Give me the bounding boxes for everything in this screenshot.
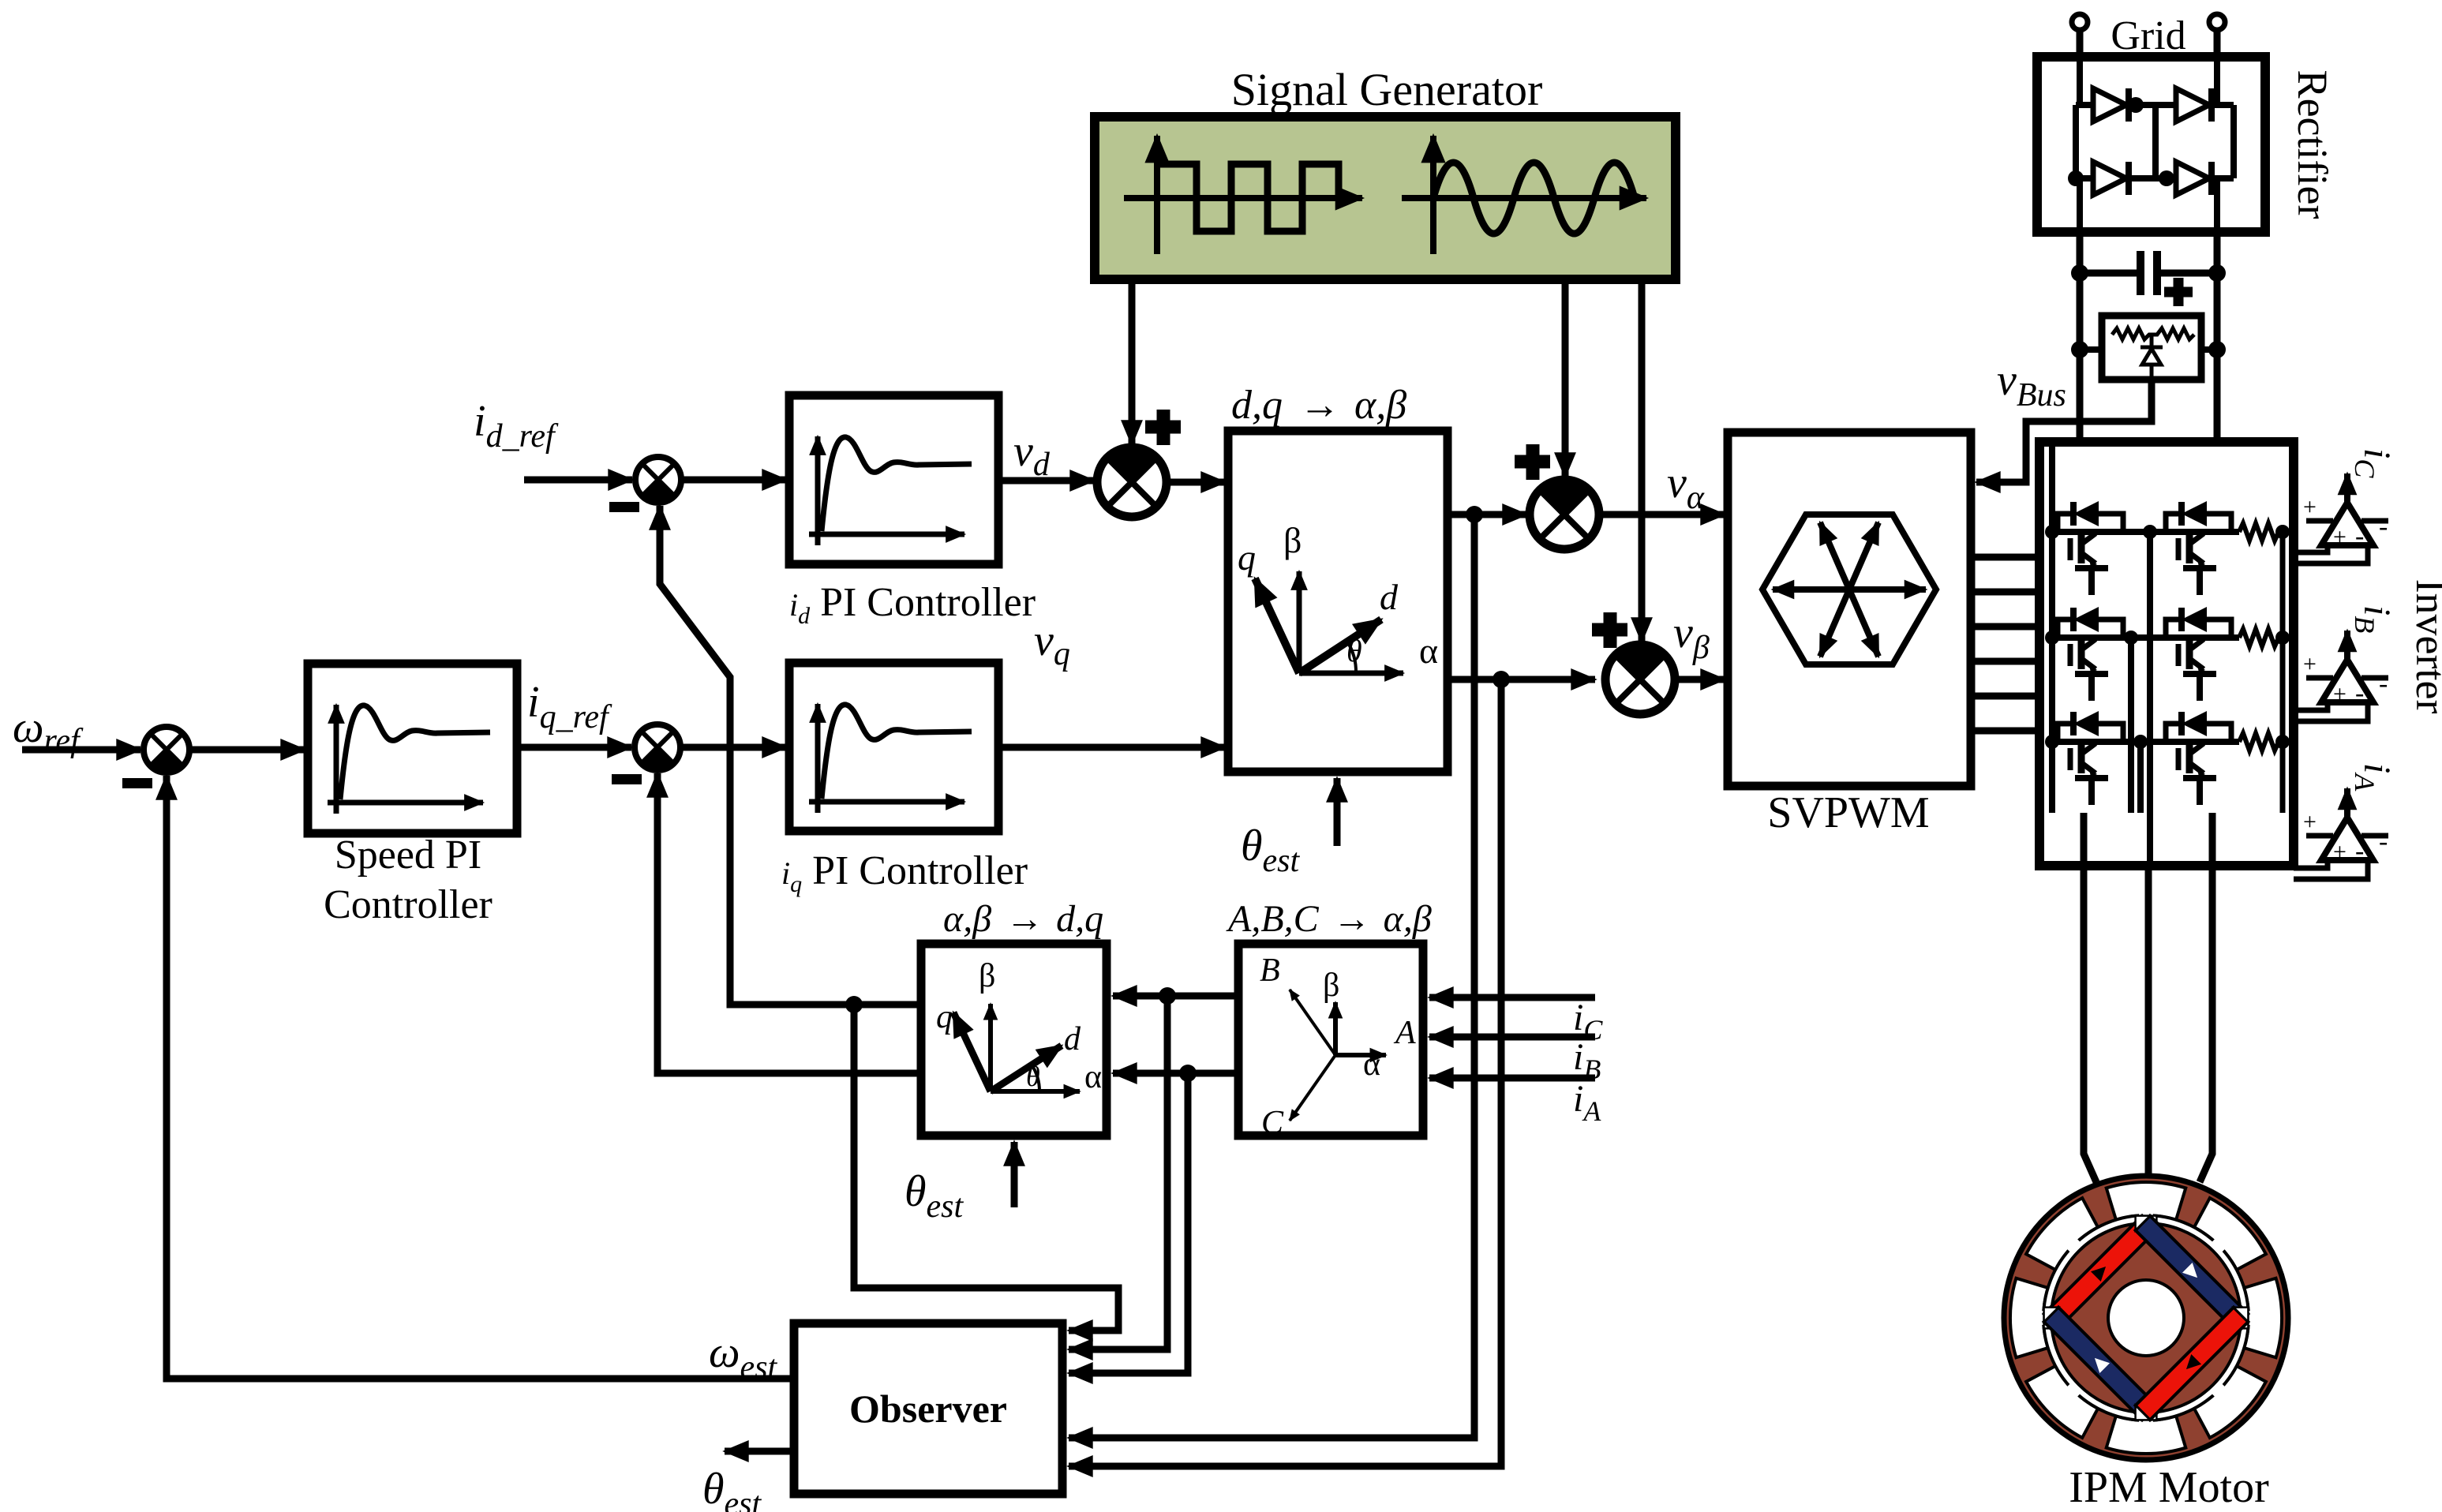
svg-text:+: + <box>2303 494 2317 520</box>
wire theta_est arrow into dq-ab <box>1334 778 1341 846</box>
minus sign at J3 <box>609 502 639 512</box>
diode D2 <box>2176 88 2212 122</box>
block dq to alpha-beta transform <box>1228 431 1448 772</box>
magnet SE red <box>2128 1300 2255 1427</box>
node dot v_alpha branch <box>1466 506 1483 523</box>
mixer M3 (v_beta) <box>1605 645 1675 714</box>
wire J3 to id PI <box>681 477 786 484</box>
block iq PI Controller <box>789 663 998 831</box>
wire phase current stub iB <box>1429 1034 1595 1041</box>
icon step response (id PI) <box>809 436 972 545</box>
wire i_beta branch to observer <box>1069 1073 1188 1373</box>
summing junction J1 (speed error) <box>144 727 189 773</box>
brake transistor <box>2140 335 2163 380</box>
block ab to dq transform <box>921 944 1107 1136</box>
plus sign at M3 <box>1592 612 1627 648</box>
stator slot 2 <box>2194 1366 2266 1438</box>
svg-text:id PI Controller: id PI Controller <box>789 580 1036 629</box>
diode D4 <box>2176 162 2212 195</box>
wire vd to mixer M1 <box>998 477 1094 485</box>
igbt Q4 mid-right <box>2166 607 2231 701</box>
block Observer <box>794 1323 1062 1494</box>
icon square wave trace <box>1157 164 1339 231</box>
wire theta_est output <box>725 1448 794 1455</box>
wire M2 to SVPWM <box>1599 511 1725 518</box>
svg-text:Observer: Observer <box>849 1387 1007 1431</box>
svg-text:IPM Motor: IPM Motor <box>2069 1463 2269 1512</box>
mixer M2 (v_alpha) <box>1530 480 1599 549</box>
igbt Q5 bot-left <box>2058 711 2123 805</box>
svg-text:+: + <box>2303 651 2317 677</box>
ab-dq theta arc <box>1032 1065 1039 1091</box>
plus sign at M2 <box>1515 444 1550 480</box>
wire M3 to SVPWM <box>1675 676 1725 683</box>
air gap ring <box>2047 1219 2245 1417</box>
svg-text:d: d <box>1380 577 1399 617</box>
wire motor phase A line <box>2084 813 2096 1182</box>
ABC diagram B axis <box>1290 990 1335 1055</box>
icon step response (iq PI) <box>809 704 972 813</box>
inverter phase mid verticals <box>2131 532 2150 866</box>
ABC diagram A axis <box>1335 1053 1386 1057</box>
summing junction J2 (iq error) <box>635 724 680 770</box>
wire DC bus right <box>2214 232 2221 442</box>
wire phase current stub iA <box>1429 1075 1595 1082</box>
svg-text:B: B <box>1260 952 1280 989</box>
wire dq-ab upper output to M2 <box>1448 511 1526 518</box>
wire id_ref input <box>524 477 632 484</box>
wire DC bus left <box>2077 232 2084 442</box>
wire idq branch to observer <box>854 1005 1118 1330</box>
ab-dq diagram d axis <box>991 1046 1062 1091</box>
axes diagram in dq-ab: d axis <box>1299 619 1381 673</box>
node dot i_alpha branch <box>1159 987 1176 1005</box>
wire SG output 1 to M1 <box>1129 279 1136 444</box>
svg-text:-: - <box>2355 679 2364 708</box>
svg-text:d: d <box>1064 1021 1081 1057</box>
stator slot 5 <box>2214 1267 2316 1369</box>
svg-text:θ: θ <box>1026 1061 1040 1092</box>
block SVPWM <box>1728 432 1971 786</box>
block Inverter <box>2039 442 2294 866</box>
summing junction J3 (id error) <box>635 457 681 503</box>
svg-text:q: q <box>936 999 953 1035</box>
plus sign capacitor <box>2164 278 2193 306</box>
sensor stub wires phase C <box>2294 545 2368 563</box>
capacitor plates <box>2140 251 2157 295</box>
svg-text:+: + <box>2303 809 2317 835</box>
block ABC to ab transform <box>1238 944 1423 1136</box>
wire motor phase C line <box>2200 813 2212 1182</box>
theta arc in dq-ab <box>1347 642 1356 673</box>
IPM motor stator <box>1976 1148 2316 1488</box>
igbt Q6 bot-right <box>2166 711 2231 805</box>
icon step response (Speed PI) <box>328 705 490 814</box>
svg-text:β: β <box>1323 967 1339 1004</box>
block Speed PI Controller <box>308 664 517 833</box>
minus sign at J2 <box>612 774 642 784</box>
wire SG output 3 to M3 <box>1639 279 1646 642</box>
wire omega_ref input <box>22 747 140 754</box>
block Signal Generator (green) <box>1095 117 1676 279</box>
node dots rectifier <box>2128 97 2144 113</box>
axes diagram in dq-ab: beta axis <box>1297 571 1302 673</box>
capacitor link wires <box>2080 270 2217 277</box>
svg-text:+: + <box>2333 524 2346 550</box>
block brake chopper <box>2102 316 2201 380</box>
svg-text:α: α <box>1084 1059 1102 1095</box>
slot openings <box>2039 1211 2253 1425</box>
wire iq feedback to J2 <box>657 773 921 1073</box>
wire gate lines SVPWM to inverter (6) <box>1971 557 2039 731</box>
wire ABC out upper to ab-dq <box>1113 993 1238 1000</box>
current sensor A <box>2303 788 2388 866</box>
ab-dq diagram beta axis <box>988 1004 993 1091</box>
minus sign at J1 <box>122 778 152 788</box>
wire M1 to dq-ab block <box>1167 479 1225 486</box>
node dot i_beta branch <box>1179 1065 1197 1082</box>
wire v_Bus sense into SVPWM <box>1976 380 2152 482</box>
grid terminal right <box>2209 14 2225 30</box>
wire SG output 2 to M2 <box>1562 279 1569 477</box>
diode D1 <box>2093 88 2129 122</box>
shunt resistor phase C <box>2239 523 2283 541</box>
wire omega_est feedback to J1 <box>167 776 794 1379</box>
mixer M1 (vd + hf injection) <box>1097 447 1167 517</box>
svg-text:-: - <box>2355 836 2364 866</box>
icon sine wave trace <box>1433 163 1635 234</box>
igbt Q3 mid-left <box>2058 607 2123 701</box>
block Rectifier <box>2037 57 2265 232</box>
shunt resistor phase B <box>2239 629 2283 646</box>
current sensor B <box>2303 631 2388 708</box>
stator bore <box>2043 1215 2249 1420</box>
svg-text:-: - <box>2379 512 2388 541</box>
shunt resistor phase A <box>2239 733 2283 750</box>
svg-text:C: C <box>1261 1105 1284 1141</box>
block id PI Controller <box>789 395 998 564</box>
magnet NE blue <box>2128 1208 2255 1335</box>
wire motor phase B line <box>2145 866 2152 1177</box>
sensor stub wires phase A <box>2294 860 2368 879</box>
svg-text:Speed PI: Speed PI <box>335 833 481 878</box>
stator slot 4 <box>2026 1198 2098 1270</box>
node dots inverter rails <box>2045 525 2059 539</box>
hexagon diagonal arrows <box>1773 522 1926 657</box>
ABC diagram beta axis <box>1333 1002 1338 1055</box>
svg-text:-: - <box>2355 522 2364 551</box>
node dot id fb branch <box>845 996 863 1013</box>
svg-text:-: - <box>2379 827 2388 856</box>
magnet NW red <box>2036 1208 2163 1335</box>
plus sign at M1 <box>1145 410 1181 445</box>
diode D3 <box>2093 162 2129 195</box>
wire i_alpha branch to observer <box>1069 996 1167 1349</box>
svg-text:Signal Generator: Signal Generator <box>1231 64 1543 115</box>
icon square wave axes <box>1124 136 1362 254</box>
wire grid leads <box>2080 30 2217 57</box>
svg-text:d,q →α,β: d,q →α,β <box>1231 383 1406 428</box>
wire theta_est arrow into ab-dq <box>1011 1142 1018 1207</box>
stator slot 7 <box>1976 1267 2078 1369</box>
svg-text:α: α <box>1419 631 1438 671</box>
inverter row rails <box>2052 532 2239 742</box>
motor rotor <box>2051 1223 2241 1413</box>
svg-text:Rectifier: Rectifier <box>2289 70 2336 219</box>
grid terminal left <box>2072 14 2088 30</box>
inverter left rail <box>2049 442 2055 813</box>
svg-text:β: β <box>979 958 995 994</box>
svg-text:+: + <box>2333 839 2346 865</box>
wire ABC out lower to ab-dq <box>1113 1070 1238 1077</box>
motor shaft hole <box>2108 1280 2184 1356</box>
node dots brake row <box>2071 341 2088 358</box>
stator slot 1 <box>2194 1198 2266 1270</box>
brake resistor zigzag <box>2112 328 2194 339</box>
wire v_beta feedback to observer <box>1069 679 1501 1466</box>
shunt node column <box>2280 532 2286 813</box>
wire dq-ab lower output to M3 <box>1448 676 1595 683</box>
hexagon icon in SVPWM <box>1762 515 1936 664</box>
igbt Q2 top-right <box>2166 501 2231 595</box>
wire vq to dq-ab block <box>998 744 1225 751</box>
svg-text:Inverter: Inverter <box>2407 579 2442 714</box>
wire phase current stub iC <box>1429 994 1595 1001</box>
stator slot 6 <box>2096 1386 2197 1488</box>
svg-text:β: β <box>1283 520 1302 560</box>
rectifier bridge rails <box>2076 57 2234 232</box>
svg-text:A: A <box>1393 1015 1416 1051</box>
svg-text:+: + <box>2333 681 2346 707</box>
wire id feedback to J3 <box>660 506 921 1005</box>
icon sine wave axes <box>1402 136 1646 254</box>
wire v_alpha feedback to observer <box>1069 515 1474 1438</box>
svg-text:θ: θ <box>1346 633 1362 668</box>
wire brake to bus <box>2080 346 2217 353</box>
svg-text:iq PI Controller: iq PI Controller <box>781 848 1028 897</box>
ab-dq diagram alpha axis <box>991 1089 1080 1094</box>
svg-text:-: - <box>2379 669 2388 698</box>
wire Speed PI to J2 <box>517 744 631 751</box>
igbt Q1 top-left <box>2058 501 2123 595</box>
svg-text:α: α <box>1363 1046 1380 1083</box>
svg-text:α,β →d,q: α,β →d,q <box>943 898 1103 940</box>
svg-text:q: q <box>1238 537 1256 578</box>
wire J1 to Speed PI <box>189 747 305 754</box>
sensor stub wires phase B <box>2294 702 2368 721</box>
stator slot 8 <box>2096 1148 2197 1250</box>
axes diagram in dq-ab: q axis <box>1255 578 1299 673</box>
current sensor C <box>2303 473 2388 551</box>
axes diagram in dq-ab: alpha axis <box>1299 671 1403 676</box>
magnet SW blue <box>2036 1300 2163 1427</box>
svg-text:Controller: Controller <box>324 882 493 927</box>
ABC diagram C axis <box>1290 1055 1335 1121</box>
ab-dq diagram q axis <box>953 1012 991 1091</box>
wire J2 to iq PI <box>680 744 786 751</box>
svg-text:SVPWM: SVPWM <box>1767 788 1929 837</box>
stator slot 3 <box>2026 1366 2098 1438</box>
svg-text:Grid: Grid <box>2111 13 2185 58</box>
node dots capacitor row <box>2071 264 2088 282</box>
node dot v_beta branch <box>1493 671 1510 688</box>
